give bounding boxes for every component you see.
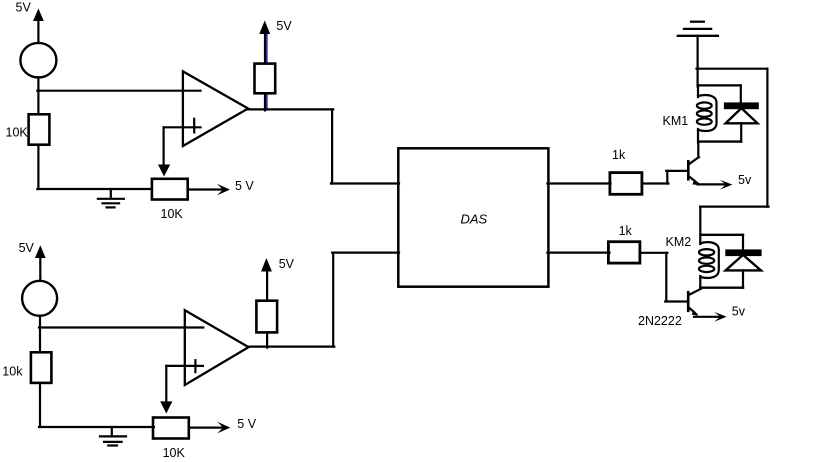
- svg-text:1k: 1k: [612, 148, 626, 162]
- svg-text:10K: 10K: [163, 446, 186, 460]
- svg-text:2N2222: 2N2222: [638, 314, 682, 328]
- svg-text:5V: 5V: [16, 1, 32, 15]
- svg-text:10k: 10k: [2, 365, 23, 379]
- svg-text:5 V: 5 V: [235, 179, 254, 193]
- svg-text:5 V: 5 V: [237, 417, 256, 431]
- svg-text:5V: 5V: [279, 257, 295, 271]
- svg-text:KM2: KM2: [666, 235, 692, 249]
- svg-text:10K: 10K: [6, 125, 29, 139]
- svg-text:5V: 5V: [19, 241, 35, 255]
- svg-text:1k: 1k: [619, 224, 633, 238]
- svg-text:5v: 5v: [738, 173, 752, 187]
- svg-text:10K: 10K: [161, 207, 184, 221]
- svg-text:KM1: KM1: [663, 114, 689, 128]
- svg-text:DAS: DAS: [461, 212, 488, 227]
- svg-text:5v: 5v: [732, 304, 746, 318]
- svg-text:5V: 5V: [276, 19, 292, 33]
